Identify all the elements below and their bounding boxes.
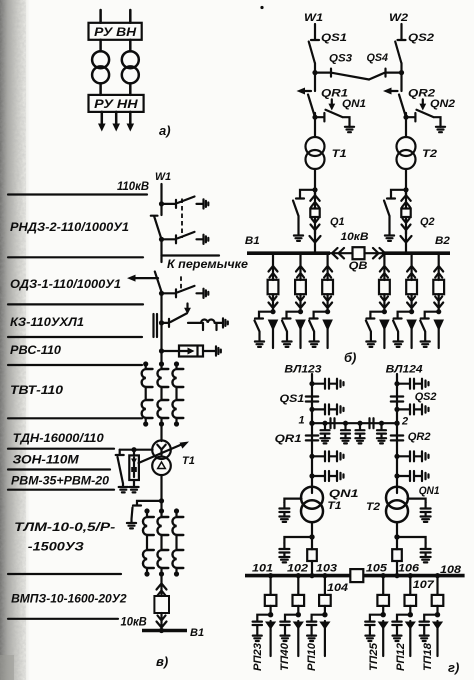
svg-text:QN1: QN1: [419, 485, 440, 497]
svg-text:T1: T1: [332, 148, 347, 160]
svg-text:ВМПЗ-10-1600-20У2: ВМПЗ-10-1600-20У2: [11, 594, 127, 606]
svg-text:б): б): [344, 350, 356, 365]
svg-text:QS2: QS2: [415, 391, 437, 403]
svg-text:ЗОН-110М: ЗОН-110М: [13, 455, 79, 467]
svg-text:QN1: QN1: [342, 98, 366, 110]
svg-text:QS1: QS1: [280, 393, 305, 405]
svg-text:а): а): [159, 123, 171, 138]
svg-text:QS1: QS1: [321, 32, 347, 44]
svg-text:107: 107: [413, 579, 435, 591]
svg-text:106: 106: [398, 563, 420, 575]
svg-text:РП12: РП12: [395, 643, 407, 671]
svg-text:В1: В1: [190, 627, 204, 639]
svg-text:РВМ-35+РВМ-20: РВМ-35+РВМ-20: [11, 476, 110, 488]
svg-text:103: 103: [316, 563, 337, 575]
svg-text:РУ ВН: РУ ВН: [94, 25, 137, 39]
svg-text:ВЛ124: ВЛ124: [386, 364, 423, 376]
svg-text:110кВ: 110кВ: [117, 181, 149, 193]
svg-text:ТВТ-110: ТВТ-110: [10, 385, 64, 397]
svg-text:РП10: РП10: [306, 642, 318, 671]
svg-text:-1500УЗ: -1500УЗ: [28, 542, 85, 554]
svg-text:QS2: QS2: [408, 32, 434, 44]
svg-text:108: 108: [440, 564, 462, 576]
svg-text:W1: W1: [304, 12, 323, 24]
svg-text:ТП18: ТП18: [422, 642, 434, 671]
svg-text:РНДЗ-2-110/1000У1: РНДЗ-2-110/1000У1: [10, 222, 129, 234]
svg-text:QN1: QN1: [329, 488, 359, 500]
svg-text:QS4: QS4: [367, 52, 389, 64]
svg-text:104: 104: [327, 582, 348, 594]
svg-text:T1: T1: [327, 500, 341, 512]
svg-text:QR1: QR1: [275, 433, 302, 445]
svg-text:B2: B2: [435, 235, 450, 247]
svg-text:W2: W2: [389, 12, 408, 24]
svg-text:в): в): [156, 654, 168, 669]
svg-text:T2: T2: [366, 501, 380, 513]
svg-text:10кВ: 10кВ: [121, 617, 147, 629]
svg-text:QR2: QR2: [408, 431, 431, 443]
svg-text:101: 101: [252, 563, 273, 575]
svg-text:г): г): [448, 660, 459, 675]
svg-text:105: 105: [366, 563, 388, 575]
svg-text:1: 1: [299, 415, 305, 427]
svg-text:К перемычке: К перемычке: [167, 259, 249, 271]
svg-text:ТЛМ-10-0,5/Р-: ТЛМ-10-0,5/Р-: [14, 522, 115, 534]
svg-text:РП23: РП23: [252, 643, 264, 671]
svg-text:РУ НН: РУ НН: [94, 97, 138, 111]
svg-text:QS3: QS3: [329, 53, 352, 65]
svg-text:2: 2: [401, 416, 408, 428]
svg-text:T2: T2: [422, 148, 437, 160]
svg-text:КЗ-110УХЛ1: КЗ-110УХЛ1: [10, 317, 84, 329]
svg-text:ТП25: ТП25: [368, 642, 380, 671]
svg-text:T1: T1: [182, 455, 195, 467]
svg-text:ВЛ123: ВЛ123: [284, 364, 321, 376]
svg-text:Q1: Q1: [330, 216, 345, 228]
svg-text:10кВ: 10кВ: [341, 231, 369, 243]
svg-text:ТП40: ТП40: [279, 642, 291, 671]
svg-text:Q2: Q2: [420, 216, 435, 228]
svg-text:W1: W1: [155, 171, 171, 183]
svg-text:102: 102: [287, 563, 308, 575]
svg-text:ОДЗ-1-110/1000У1: ОДЗ-1-110/1000У1: [10, 279, 121, 291]
svg-text:B1: B1: [245, 235, 260, 247]
svg-text:ТДН-16000/110: ТДН-16000/110: [13, 433, 105, 445]
svg-text:РВС-110: РВС-110: [10, 345, 62, 357]
svg-text:QN2: QN2: [430, 98, 455, 110]
svg-text:QB: QB: [349, 260, 368, 272]
